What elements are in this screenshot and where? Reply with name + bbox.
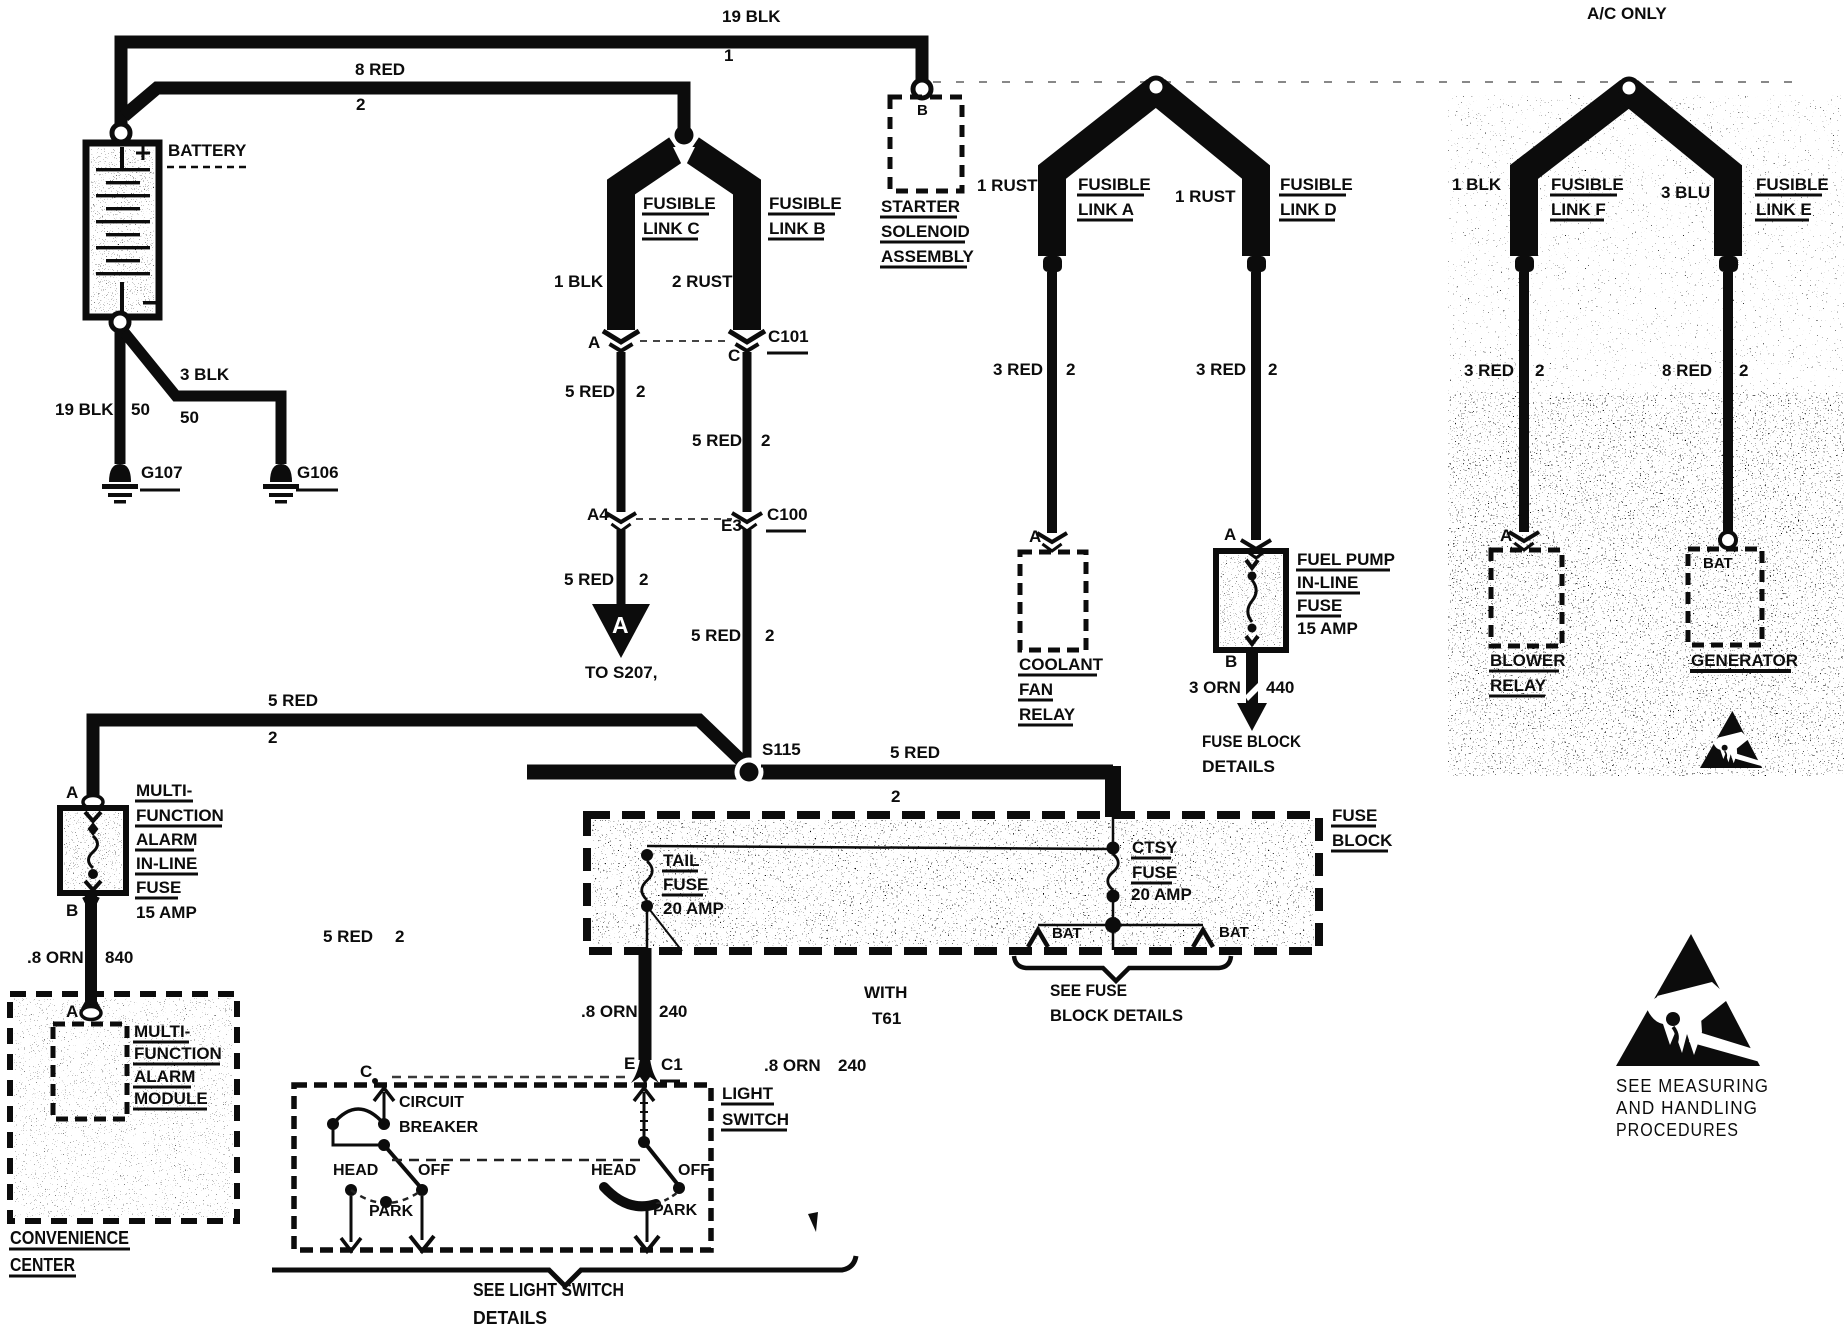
battery + terminal xyxy=(112,124,130,142)
coolant fan relay box xyxy=(1020,552,1086,650)
svg-text:MULTI-: MULTI- xyxy=(134,1022,190,1041)
svg-text:FUSE: FUSE xyxy=(1332,806,1377,825)
output arrow (right) xyxy=(646,1207,649,1242)
CTSY fuse xyxy=(1107,842,1120,855)
svg-text:DETAILS: DETAILS xyxy=(473,1308,547,1328)
svg-text:C100: C100 xyxy=(767,505,808,524)
dashed line between switch halves xyxy=(392,1159,640,1162)
svg-text:LINK D: LINK D xyxy=(1280,200,1337,219)
svg-text:FUSIBLE: FUSIBLE xyxy=(1280,175,1353,194)
svg-text:LINK C: LINK C xyxy=(643,219,700,238)
svg-text:440: 440 xyxy=(1266,678,1294,697)
svg-text:FUSIBLE: FUSIBLE xyxy=(1756,175,1829,194)
svg-text:1 RUST: 1 RUST xyxy=(1175,187,1236,206)
svg-text:FUNCTION: FUNCTION xyxy=(136,806,224,825)
brace: see light switch details xyxy=(272,1256,856,1286)
svg-text:LINK E: LINK E xyxy=(1756,200,1812,219)
wire .8 ORN 240 (tail fuse to light switch E) xyxy=(639,948,652,1060)
svg-text:RELAY: RELAY xyxy=(1490,676,1547,695)
svg-text:5 RED: 5 RED xyxy=(691,626,741,645)
svg-text:ASSEMBLY: ASSEMBLY xyxy=(881,247,975,266)
svg-text:2: 2 xyxy=(1268,360,1277,379)
dashed park arc (left) xyxy=(351,1190,422,1203)
svg-text:240: 240 xyxy=(659,1002,687,1021)
svg-text:TO S207,: TO S207, xyxy=(585,663,657,682)
svg-text:LINK B: LINK B xyxy=(769,219,826,238)
svg-text:A: A xyxy=(66,1002,78,1021)
wire 3 ORN 440 arrow to fuse block details xyxy=(1246,650,1258,712)
fusible link D (thick band) xyxy=(1156,90,1256,256)
svg-text:8 RED: 8 RED xyxy=(355,60,405,79)
wire 5 RED (A4 down to arrow A) xyxy=(617,530,626,612)
wire 5 RED (C101 to E3) xyxy=(743,352,752,512)
svg-text:1 BLK: 1 BLK xyxy=(1452,175,1502,194)
connector (link A lower end) xyxy=(1043,256,1062,272)
svg-text:BAT: BAT xyxy=(1219,924,1249,941)
svg-text:3 RED: 3 RED xyxy=(1196,360,1246,379)
svg-text:.8 ORN: .8 ORN xyxy=(764,1056,821,1075)
svg-text:BAT: BAT xyxy=(1052,925,1082,942)
svg-text:BAT: BAT xyxy=(1703,555,1733,572)
svg-text:2: 2 xyxy=(636,382,645,401)
wire 8 RED 2 (to generator) xyxy=(1723,272,1733,534)
BAT feed rail xyxy=(1105,917,1121,933)
svg-text:5 RED: 5 RED xyxy=(565,382,615,401)
svg-text:BREAKER: BREAKER xyxy=(399,1119,479,1136)
svg-text:B: B xyxy=(917,102,928,119)
svg-text:GENERATOR: GENERATOR xyxy=(1691,651,1798,670)
svg-text:A/C ONLY: A/C ONLY xyxy=(1587,4,1667,23)
svg-text:3 RED: 3 RED xyxy=(993,360,1043,379)
svg-text:DETAILS: DETAILS xyxy=(1202,757,1275,776)
svg-text:CTSY: CTSY xyxy=(1132,838,1178,857)
svg-text:C1: C1 xyxy=(661,1055,683,1074)
svg-text:2: 2 xyxy=(395,927,404,946)
wire 3 RED 2 (to fuel pump fuse) xyxy=(1251,272,1261,540)
brace: see fuse block details xyxy=(1014,956,1231,981)
svg-text:2: 2 xyxy=(1066,360,1075,379)
connector E3 / C100 xyxy=(732,513,762,522)
fusible link B (thick band) xyxy=(691,149,747,330)
wire 3 RED 2 (to coolant fan relay) xyxy=(1047,272,1057,533)
multi-function alarm module box xyxy=(53,1024,127,1119)
svg-text:ALARM: ALARM xyxy=(134,1067,195,1086)
multi-function alarm in-line fuse box xyxy=(64,812,122,889)
svg-text:CONVENIENCE: CONVENIENCE xyxy=(10,1228,129,1248)
svg-text:SEE MEASURING: SEE MEASURING xyxy=(1616,1076,1769,1096)
generator box xyxy=(1688,549,1762,645)
svg-text:PARK: PARK xyxy=(653,1202,698,1219)
svg-text:1 BLK: 1 BLK xyxy=(554,272,604,291)
svg-text:HEAD: HEAD xyxy=(591,1162,636,1179)
svg-text:5 RED: 5 RED xyxy=(268,691,318,710)
dashed line C to E xyxy=(392,1076,630,1079)
svg-text:15 AMP: 15 AMP xyxy=(136,903,197,922)
svg-text:S115: S115 xyxy=(762,740,801,759)
svg-text:3 BLK: 3 BLK xyxy=(180,365,230,384)
svg-text:OFF: OFF xyxy=(678,1162,710,1179)
svg-text:CENTER: CENTER xyxy=(10,1255,75,1275)
svg-text:19 BLK: 19 BLK xyxy=(722,7,781,26)
connector A4 xyxy=(606,513,636,522)
svg-text:STARTER: STARTER xyxy=(881,197,960,216)
starter solenoid assembly box xyxy=(890,97,962,191)
starter solenoid terminal B xyxy=(913,80,931,98)
connector (link E lower end) xyxy=(1719,256,1738,272)
svg-text:5 RED: 5 RED xyxy=(323,927,373,946)
svg-text:FUSE BLOCK: FUSE BLOCK xyxy=(1202,732,1302,751)
svg-text:.8 ORN: .8 ORN xyxy=(27,948,84,967)
wire 5 RED (C100 down to S115) xyxy=(743,530,752,766)
svg-text:C: C xyxy=(728,346,740,365)
svg-text:MODULE: MODULE xyxy=(134,1089,208,1108)
svg-text:5 RED: 5 RED xyxy=(692,431,742,450)
svg-text:COOLANT: COOLANT xyxy=(1019,655,1104,674)
wire 5 RED 2 (to multi-function alarm fuse) xyxy=(93,720,751,802)
stray mark xyxy=(808,1212,818,1232)
svg-text:FAN: FAN xyxy=(1019,680,1053,699)
svg-text:WITH: WITH xyxy=(864,983,907,1002)
circuit breaker arc xyxy=(333,1109,384,1124)
circuit breaker entry arrow xyxy=(374,1088,394,1101)
svg-text:A: A xyxy=(612,612,629,638)
svg-text:2: 2 xyxy=(356,95,365,114)
svg-text:LINK A: LINK A xyxy=(1078,200,1134,219)
svg-text:A: A xyxy=(66,783,78,802)
dashed line A4 to C100 xyxy=(636,518,732,520)
junction dot at links C/B peak xyxy=(675,126,694,145)
connector A (fuel pump fuse) xyxy=(1241,540,1271,549)
svg-text:RELAY: RELAY xyxy=(1019,705,1076,724)
BAT terminal right xyxy=(1193,930,1213,947)
svg-text:C: C xyxy=(360,1062,372,1081)
switch blade (right) xyxy=(644,1142,679,1186)
svg-text:840: 840 xyxy=(105,948,133,967)
svg-text:50: 50 xyxy=(131,400,150,419)
connector A (link C lower end) xyxy=(603,331,639,342)
svg-text:2: 2 xyxy=(639,570,648,589)
wire TAIL branch xyxy=(647,846,1113,849)
svg-text:BATTERY: BATTERY xyxy=(168,141,247,160)
svg-text:G106: G106 xyxy=(297,463,339,482)
splice S115 xyxy=(735,758,764,787)
wiper crescent xyxy=(604,1187,656,1206)
battery xyxy=(91,148,154,312)
connector (link D lower end) xyxy=(1247,256,1266,272)
connector (link F lower end) xyxy=(1515,256,1534,272)
svg-text:SWITCH: SWITCH xyxy=(722,1110,789,1129)
faint dotted line (A/C ONLY branch) xyxy=(933,81,1798,83)
wire S115 bus xyxy=(527,765,1113,780)
svg-text:CIRCUIT: CIRCUIT xyxy=(399,1094,464,1111)
fusible link A (thick band) xyxy=(1052,90,1156,256)
fuse block box xyxy=(592,820,1314,946)
svg-text:A: A xyxy=(1500,526,1512,545)
svg-text:SEE FUSE: SEE FUSE xyxy=(1050,981,1127,1000)
peak terminal circle xyxy=(1620,79,1638,97)
light switch box xyxy=(294,1085,711,1250)
svg-text:20 AMP: 20 AMP xyxy=(1131,885,1192,904)
TAIL fuse xyxy=(641,849,653,861)
svg-text:B: B xyxy=(66,901,78,920)
generator BAT terminal xyxy=(1720,532,1736,548)
svg-text:2: 2 xyxy=(268,728,277,747)
svg-text:19 BLK: 19 BLK xyxy=(55,400,114,419)
svg-text:2: 2 xyxy=(765,626,774,645)
svg-text:E3: E3 xyxy=(721,516,742,535)
speckle background: right-hand scan-noise region xyxy=(1448,392,1844,776)
connector C (link B lower end, C101) xyxy=(729,331,765,342)
switch blade (left) xyxy=(384,1145,422,1189)
svg-text:OFF: OFF xyxy=(418,1162,450,1179)
svg-text:3 ORN: 3 ORN xyxy=(1189,678,1241,697)
fuel pump in-line fuse box xyxy=(1220,555,1282,646)
ESD warning symbol xyxy=(1616,934,1760,1066)
svg-text:LIGHT: LIGHT xyxy=(722,1084,774,1103)
svg-text:PROCEDURES: PROCEDURES xyxy=(1616,1120,1739,1140)
connector A (alarm module) xyxy=(83,995,99,1009)
fusible link F (thick band) xyxy=(1524,91,1629,256)
svg-text:LINK F: LINK F xyxy=(1551,200,1606,219)
svg-text:IN-LINE: IN-LINE xyxy=(136,854,197,873)
svg-text:50: 50 xyxy=(180,408,199,427)
ground G107 xyxy=(109,464,131,482)
wire 3 BLK 50 to G106 xyxy=(124,332,281,464)
wire 19 BLK bus (battery + to starter solenoid B) xyxy=(121,42,922,126)
svg-text:FUSIBLE: FUSIBLE xyxy=(769,194,842,213)
svg-text:2 RUST: 2 RUST xyxy=(672,272,733,291)
svg-text:IN-LINE: IN-LINE xyxy=(1297,573,1358,592)
svg-text:5 RED: 5 RED xyxy=(564,570,614,589)
svg-text:A: A xyxy=(1029,527,1041,546)
BAT terminal left xyxy=(1028,930,1048,947)
svg-text:BLOWER: BLOWER xyxy=(1490,651,1566,670)
wire 3 RED 2 (to blower relay) xyxy=(1519,272,1529,532)
svg-text:BLOCK DETAILS: BLOCK DETAILS xyxy=(1050,1006,1183,1025)
svg-text:FUNCTION: FUNCTION xyxy=(134,1044,222,1063)
wire into CTSY fuse xyxy=(1112,817,1115,846)
svg-text:T61: T61 xyxy=(872,1009,901,1028)
svg-text:FUSIBLE: FUSIBLE xyxy=(643,194,716,213)
svg-text:A: A xyxy=(1224,525,1236,544)
svg-text:A: A xyxy=(588,333,600,352)
connector A (coolant fan relay) xyxy=(1037,533,1067,542)
wire 19 BLK 50 to G107 xyxy=(115,330,126,464)
svg-text:2: 2 xyxy=(1739,361,1748,380)
svg-text:FUSE: FUSE xyxy=(1297,596,1342,615)
svg-text:240: 240 xyxy=(838,1056,866,1075)
light switch entry arrow (E) xyxy=(634,1088,654,1101)
wire 5 RED (A to A4) xyxy=(617,352,626,512)
svg-text:3 BLU: 3 BLU xyxy=(1661,183,1710,202)
svg-text:2: 2 xyxy=(891,787,900,806)
blower relay box xyxy=(1491,550,1562,646)
svg-text:C101: C101 xyxy=(768,327,809,346)
svg-text:FUSE: FUSE xyxy=(663,875,708,894)
white notch under peak xyxy=(673,147,695,169)
convenience center box xyxy=(14,998,233,1217)
wire .8 ORN 840 xyxy=(85,893,97,1010)
svg-text:1 RUST: 1 RUST xyxy=(977,176,1038,195)
ground G106 xyxy=(270,464,292,482)
svg-text:FUSIBLE: FUSIBLE xyxy=(1078,175,1151,194)
svg-text:B: B xyxy=(1225,652,1237,671)
svg-text:3 RED: 3 RED xyxy=(1464,361,1514,380)
svg-text:2: 2 xyxy=(1535,361,1544,380)
svg-text:FUSE: FUSE xyxy=(1132,863,1177,882)
svg-text:SOLENOID: SOLENOID xyxy=(881,222,970,241)
svg-text:BLOCK: BLOCK xyxy=(1332,831,1393,850)
svg-text:15 AMP: 15 AMP xyxy=(1297,619,1358,638)
svg-text:FUSE: FUSE xyxy=(136,878,181,897)
svg-text:FUEL PUMP: FUEL PUMP xyxy=(1297,550,1395,569)
svg-text:A4: A4 xyxy=(587,505,609,524)
svg-text:20 AMP: 20 AMP xyxy=(663,899,724,918)
small ESD triangle xyxy=(1700,711,1762,768)
svg-text:8 RED: 8 RED xyxy=(1662,361,1712,380)
peak terminal circle xyxy=(1147,78,1165,96)
connector A (mf fuse) xyxy=(84,793,102,807)
fusible link E (thick band) xyxy=(1629,91,1728,256)
fusible link C (thick band) xyxy=(621,149,677,330)
svg-text:5 RED: 5 RED xyxy=(890,743,940,762)
output arrows (left) xyxy=(350,1196,353,1242)
svg-text:PARK: PARK xyxy=(369,1203,414,1220)
wire into fuse block xyxy=(1105,766,1121,817)
arrow A (to S207) xyxy=(592,604,650,658)
svg-text:TAIL: TAIL xyxy=(663,851,700,870)
svg-text:2: 2 xyxy=(761,431,770,450)
svg-text:.8 ORN: .8 ORN xyxy=(581,1002,638,1021)
svg-text:MULTI-: MULTI- xyxy=(136,781,192,800)
svg-text:AND HANDLING: AND HANDLING xyxy=(1616,1098,1758,1118)
svg-text:FUSIBLE: FUSIBLE xyxy=(1551,175,1624,194)
wire 8 RED (battery + to fusible link C/B junction) xyxy=(124,88,684,128)
svg-text:G107: G107 xyxy=(141,463,183,482)
svg-text:ALARM: ALARM xyxy=(136,830,197,849)
connector A (blower relay) xyxy=(1509,532,1539,541)
battery - terminal xyxy=(111,313,129,331)
svg-text:1: 1 xyxy=(724,46,733,65)
dashed line A to C101 xyxy=(640,340,727,342)
svg-text:HEAD: HEAD xyxy=(333,1162,378,1179)
svg-text:E: E xyxy=(624,1054,635,1073)
svg-text:SEE LIGHT SWITCH: SEE LIGHT SWITCH xyxy=(473,1280,624,1300)
